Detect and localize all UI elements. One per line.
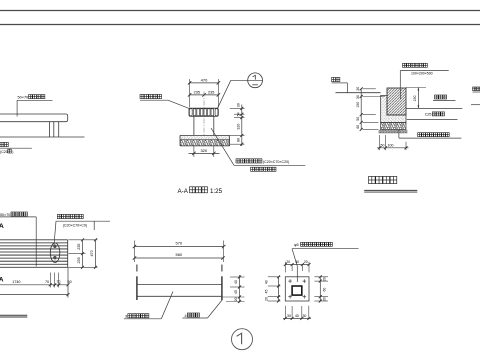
svg-text:φ5: φ5 [294,243,299,247]
svg-text:560: 560 [176,252,183,257]
svg-text:30: 30 [236,103,240,107]
bench plan band [0,239,68,241]
svg-text:30: 30 [302,314,306,318]
svg-text:150: 150 [356,102,360,108]
A-A section dim 470 [189,79,191,108]
far right cut-off detail [473,87,476,91]
svg-text:20: 20 [286,260,290,264]
gravel cushion + soil label [418,133,422,137]
svg-text:80: 80 [236,138,240,142]
svg-text:50: 50 [68,280,72,284]
ground band: mortar + gravel [180,135,230,139]
svg-text:20: 20 [265,297,269,301]
pavement line [406,107,462,109]
svg-text:A-A: A-A [178,188,189,195]
footing outer square [285,277,309,301]
svg-text:470: 470 [201,78,208,83]
seat slats section [189,108,218,116]
centre line [203,92,205,136]
svg-text:20: 20 [322,297,326,301]
footing bottom dims 30/40/30 [284,306,286,319]
adhesive label [435,95,439,99]
svg-text:50: 50 [356,117,360,121]
ground line [0,136,85,138]
bench leg line 2 [53,122,55,137]
border line 2 [0,24,480,26]
svg-text:235: 235 [194,90,200,94]
svg-text:1740: 1740 [12,280,20,284]
svg-text:1:25: 1:25 [210,188,223,195]
svg-text:470: 470 [90,250,94,256]
grass line [336,92,381,94]
A-A section dim 235+235 [190,94,219,96]
svg-text:60: 60 [356,125,360,129]
plan leader: concrete footing [57,214,61,218]
svg-text:3: 3 [125,315,127,319]
svg-text:(C20×C70×C0): (C20×C70×C0) [63,223,87,227]
bench seat side elevation [0,114,68,122]
bench leg line 3 [58,122,60,137]
svg-text:20: 20 [322,277,326,281]
slat dim 570 [134,241,136,263]
curb left dim stack [360,89,362,130]
svg-text:40: 40 [295,314,299,318]
footing top dims 20/40/20 [284,262,286,273]
svg-text:54: 54 [236,112,240,116]
detail bubble 1 [218,80,231,108]
border line top [0,10,480,12]
svg-text:50: 50 [381,144,385,148]
svg-text:235: 235 [208,90,214,94]
svg-text:A: A [0,277,4,284]
gravel layer [381,123,406,130]
svg-text:150: 150 [413,96,417,102]
curb stone hatched [387,88,406,115]
bench leg section [193,116,195,135]
plan right dims 235/235/470 [69,239,98,241]
svg-text:A: A [0,223,4,230]
bench leg line 1 [48,122,50,137]
right dim stack of section [241,105,243,147]
svg-text:45: 45 [265,290,269,294]
soil hatch [379,130,408,134]
slat dim 560 [135,257,224,259]
footing right dims [319,277,321,301]
bottom-left cut label [0,142,4,146]
plan bottom dims [49,273,51,288]
curb right dim 150 [406,87,426,89]
svg-text:50×70: 50×70 [0,213,10,217]
title curb [369,176,376,183]
cut-off title underline bottom left [0,314,27,316]
svg-text:70: 70 [45,280,49,284]
curb bottom dims [379,135,381,150]
grass label [332,77,336,81]
svg-text:320: 320 [200,148,207,153]
svg-text:70: 70 [56,280,60,284]
svg-text:30: 30 [356,95,360,99]
svg-text:235: 235 [77,244,81,250]
steel tube inner square [292,286,302,295]
svg-text:50×70: 50×70 [18,96,29,100]
svg-text:60: 60 [322,288,326,292]
leader: paving + soil [211,128,234,165]
svg-text:40: 40 [265,280,269,284]
svg-text:C25: C25 [425,113,432,117]
footing left dims [278,277,280,301]
svg-text:4: 4 [185,314,187,318]
svg-text:): ) [12,150,13,154]
svg-text:30: 30 [287,314,291,318]
bottom dim 320 [193,146,195,157]
svg-text:20: 20 [304,260,308,264]
svg-text:320: 320 [236,124,240,130]
svg-text:40: 40 [234,280,238,284]
wood slat elevation [136,276,138,300]
svg-text:(C20×C70×C20): (C20×C70×C20) [263,160,289,164]
svg-text:235: 235 [77,257,81,263]
concrete bed L-shape [381,96,406,123]
svg-text:(C20: (C20 [0,150,8,154]
svg-text:20: 20 [356,87,360,91]
svg-text:570: 570 [176,241,183,246]
sheet number circle 1 [232,329,253,350]
slat right dims [239,275,241,303]
svg-text:100: 100 [388,144,394,148]
leader: wood preservative [140,94,144,98]
slat extension stubs [136,265,138,272]
svg-text:20: 20 [234,297,238,301]
anchor bolt crosses [288,280,292,282]
curb leader: granite [403,63,407,67]
svg-text:45: 45 [234,290,238,294]
footing ellipse [50,243,60,263]
svg-text:40: 40 [295,260,299,264]
svg-text:100×200×500: 100×200×500 [411,72,433,76]
